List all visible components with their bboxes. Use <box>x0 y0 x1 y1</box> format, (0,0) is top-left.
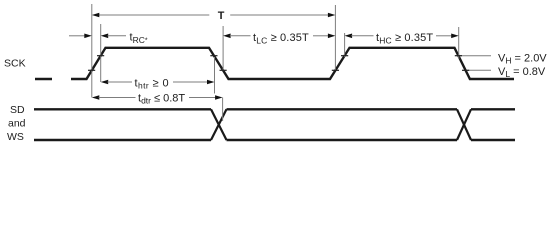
arrowhead T right <box>328 13 336 18</box>
tick falling edge 1 VH <box>210 55 217 57</box>
dimension thtr right line <box>173 81 208 83</box>
node data crossover X2 <box>457 109 471 140</box>
arrowhead tRC lead-in pointing right <box>84 34 92 39</box>
svg-text:and: and <box>8 118 26 130</box>
wire SD/WS top line segment 1 <box>34 108 211 110</box>
dimension line xC at falling edge 1 VL crossing <box>222 26 224 71</box>
dimension line xG at falling edge 1 VH crossing <box>214 57 216 94</box>
wire SD/WS bottom line segment 2 <box>227 139 458 141</box>
arrowhead tRC pointing left <box>101 34 109 39</box>
dimension tdtr right line <box>189 97 216 99</box>
arrowhead tdtr left <box>92 95 100 100</box>
dimension line xE at rising edge 2 VH crossing <box>344 33 346 57</box>
arrowhead tHC left <box>345 34 353 39</box>
arrowhead tLC right <box>328 34 336 39</box>
svg-text:tLC ≥ 0.35T: tLC ≥ 0.35T <box>253 32 309 45</box>
tick falling edge 1 VL <box>220 69 227 71</box>
svg-text:thtr ≥ 0: thtr ≥ 0 <box>135 77 169 90</box>
tick rising edge 1 VH <box>97 55 104 57</box>
arrowhead tLC left <box>223 34 231 39</box>
dimension tdtr left line <box>99 97 136 99</box>
tick rising edge 2 VL <box>332 69 339 71</box>
dimension line xD at rising edge 2 VL crossing <box>334 5 336 71</box>
tick rising edge 2 VH <box>341 55 348 57</box>
dimension T arrow line right segment <box>230 14 329 16</box>
arrowhead thtr left <box>101 80 109 85</box>
tick falling edge 2 VL <box>462 69 469 71</box>
wire SCK main waveform <box>71 48 514 79</box>
dimension thtr left line <box>108 81 133 83</box>
arrowhead tdtr right <box>215 95 223 100</box>
arrowhead thtr right <box>207 80 215 85</box>
wire SD/WS bottom line segment 1 <box>34 139 211 141</box>
wire SCK lead-in dash 1 <box>35 78 52 80</box>
dimension tRC tail line <box>108 35 127 37</box>
dimension tHC right line <box>436 35 452 37</box>
level line VL <box>468 69 492 71</box>
dimension line xB at rising edge 1 VH crossing <box>100 24 102 82</box>
svg-text:tRC*: tRC* <box>130 32 148 45</box>
dimension tLC left line <box>230 35 251 37</box>
tick falling edge 2 VH <box>455 55 462 57</box>
svg-text:tdtr ≤ 0.8T: tdtr ≤ 0.8T <box>138 92 185 105</box>
dimension tRC lead-in line <box>69 35 85 37</box>
node data crossover X1 <box>211 109 227 140</box>
dimension tHC left line <box>351 35 373 37</box>
wire SD/WS top line segment 2 <box>227 108 458 110</box>
svg-text:SCK: SCK <box>4 58 26 70</box>
svg-text:SD: SD <box>10 104 25 116</box>
wire SD/WS top line segment 3 <box>471 108 515 110</box>
svg-text:tHC ≥ 0.35T: tHC ≥ 0.35T <box>376 32 433 45</box>
svg-text:VL = 0.8V: VL = 0.8V <box>498 66 546 79</box>
svg-text:VH = 2.0V: VH = 2.0V <box>498 52 547 65</box>
arrowhead T left <box>92 13 100 18</box>
dimension T arrow line left segment <box>98 14 209 16</box>
dimension line xA at rising edge 1 VL crossing <box>91 4 93 98</box>
arrowhead tHC right <box>451 34 459 39</box>
dimension line xF at falling edge 2 VH crossing <box>458 27 460 59</box>
wire SD/WS bottom line segment 3 <box>471 139 515 141</box>
level line VH <box>460 55 492 57</box>
tick rising edge 1 VL <box>88 69 95 71</box>
svg-text:WS: WS <box>7 131 24 143</box>
dimension tLC right line <box>313 35 329 37</box>
svg-text:T: T <box>218 10 225 22</box>
dimension line xH to data crossover X1 <box>222 98 224 122</box>
